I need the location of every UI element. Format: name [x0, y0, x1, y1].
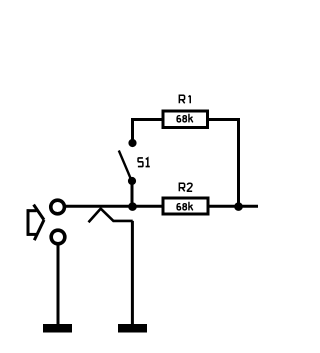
value 68k of R2: [177, 202, 193, 211]
resistor R1 body: [163, 111, 208, 128]
label S1: [138, 158, 150, 167]
wire: S1 branch upper vertical: [131, 118, 134, 143]
resistor R2 body: [163, 198, 208, 214]
value 68k of R1: [177, 114, 193, 123]
jack NC switch contact (caret): [89, 209, 133, 223]
label R2: [179, 183, 192, 191]
jack tip contact circle: [51, 200, 65, 214]
wire: main horizontal net from jack tip to output: [65, 205, 259, 208]
jack plug symbol: [27, 205, 44, 241]
ground symbol right: [118, 324, 147, 333]
jack sleeve contact circle: [51, 230, 65, 244]
label R1: [179, 95, 190, 103]
ground symbol left: [43, 324, 72, 333]
switch S1 bottom contact dot: [128, 177, 136, 185]
wire: right vertical from R1 to junction: [237, 118, 240, 206]
wire: NC contact to ground: [131, 221, 134, 326]
wire: S1 branch lower vertical: [131, 181, 134, 206]
wire: R1 left horizontal: [131, 118, 165, 121]
wire: R1 right horizontal: [206, 118, 240, 121]
junction node at R1/R2 output: [234, 202, 243, 211]
switch S1 top contact dot: [128, 139, 136, 147]
wire: sleeve to ground: [57, 244, 60, 327]
switch S1 lever: [119, 151, 132, 181]
junction node at S1/R2: [128, 202, 137, 211]
